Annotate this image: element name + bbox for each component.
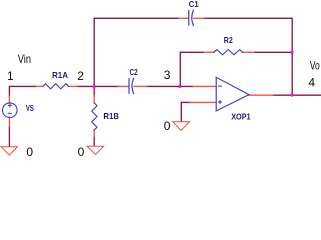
svg-text:Vin: Vin <box>18 52 31 66</box>
svg-text:0: 0 <box>26 145 33 157</box>
svg-text:0: 0 <box>164 119 171 133</box>
capacitor C1 <box>189 10 194 25</box>
wire R1A to node2 to C2 <box>77 85 118 87</box>
svg-text:Vo: Vo <box>310 58 320 72</box>
svg-text:4: 4 <box>308 76 315 90</box>
pin stub opamp output <box>249 94 273 96</box>
wire output to edge <box>273 94 321 96</box>
VS minus sign <box>8 112 11 114</box>
wire R2 left corner down to node3 <box>179 52 181 86</box>
pin stub R1B top <box>93 96 95 104</box>
pin stub R1B bottom <box>93 130 95 137</box>
svg-text:C1: C1 <box>189 0 199 9</box>
pin stub VS top <box>8 96 10 103</box>
junction node 3 <box>178 85 181 88</box>
svg-text:3: 3 <box>164 68 171 82</box>
svg-text:R1A: R1A <box>52 70 68 80</box>
pin stub opamp plus <box>190 101 216 103</box>
resistor R2 <box>214 50 243 55</box>
svg-text:1: 1 <box>7 69 14 83</box>
pin stub R1A right <box>68 85 77 87</box>
wire R1B bottom to ground <box>93 137 95 146</box>
pin stub R2 right <box>243 51 254 53</box>
resistor R1A <box>43 84 68 89</box>
wire R2 rail right <box>254 51 292 53</box>
wire opamp plus to ground corner <box>181 102 190 121</box>
wire top rail right of C1 to right column <box>204 18 292 95</box>
op-amp plus sign <box>219 101 222 104</box>
wire node2 vertical (top rail to R1B) <box>93 18 95 95</box>
wire top rail left of C1 <box>94 17 179 19</box>
svg-text:R1B: R1B <box>103 111 119 121</box>
wire C2 to node3 <box>147 85 193 87</box>
ground under R1B <box>87 146 104 154</box>
svg-text:C2: C2 <box>130 67 138 77</box>
pin stub C2 left <box>118 85 128 87</box>
pin stub C1 left <box>179 17 188 19</box>
op-amp U XOP1 triangle <box>216 77 249 111</box>
junction node 4 output <box>290 94 293 97</box>
svg-text:2: 2 <box>77 69 84 83</box>
pin stub R2 left <box>204 51 214 53</box>
pin stub C1 right <box>194 17 204 19</box>
wire R2 rail left <box>180 51 204 53</box>
wire VS bottom to ground <box>8 127 10 147</box>
svg-text:0: 0 <box>78 145 85 157</box>
junction node 2 <box>93 85 96 88</box>
svg-text:R2: R2 <box>224 35 233 45</box>
op-amp minus sign <box>219 85 222 87</box>
ground under VS <box>1 147 17 155</box>
capacitor C2 <box>129 78 134 93</box>
ground at op-amp plus input <box>173 122 190 131</box>
wire node1 corner to R1A <box>9 86 36 96</box>
voltage source VS circle <box>3 103 18 118</box>
resistor R1B <box>92 103 97 130</box>
junction R2 rail / right column <box>290 51 293 54</box>
pin stub R1A left <box>36 85 43 87</box>
pin stub VS bottom <box>8 117 10 126</box>
svg-text:VS: VS <box>26 103 34 113</box>
pin stub C2 right <box>134 85 147 87</box>
svg-text:XOP1: XOP1 <box>231 112 251 122</box>
pin stub opamp minus <box>193 85 216 87</box>
VS plus sign <box>8 104 11 107</box>
